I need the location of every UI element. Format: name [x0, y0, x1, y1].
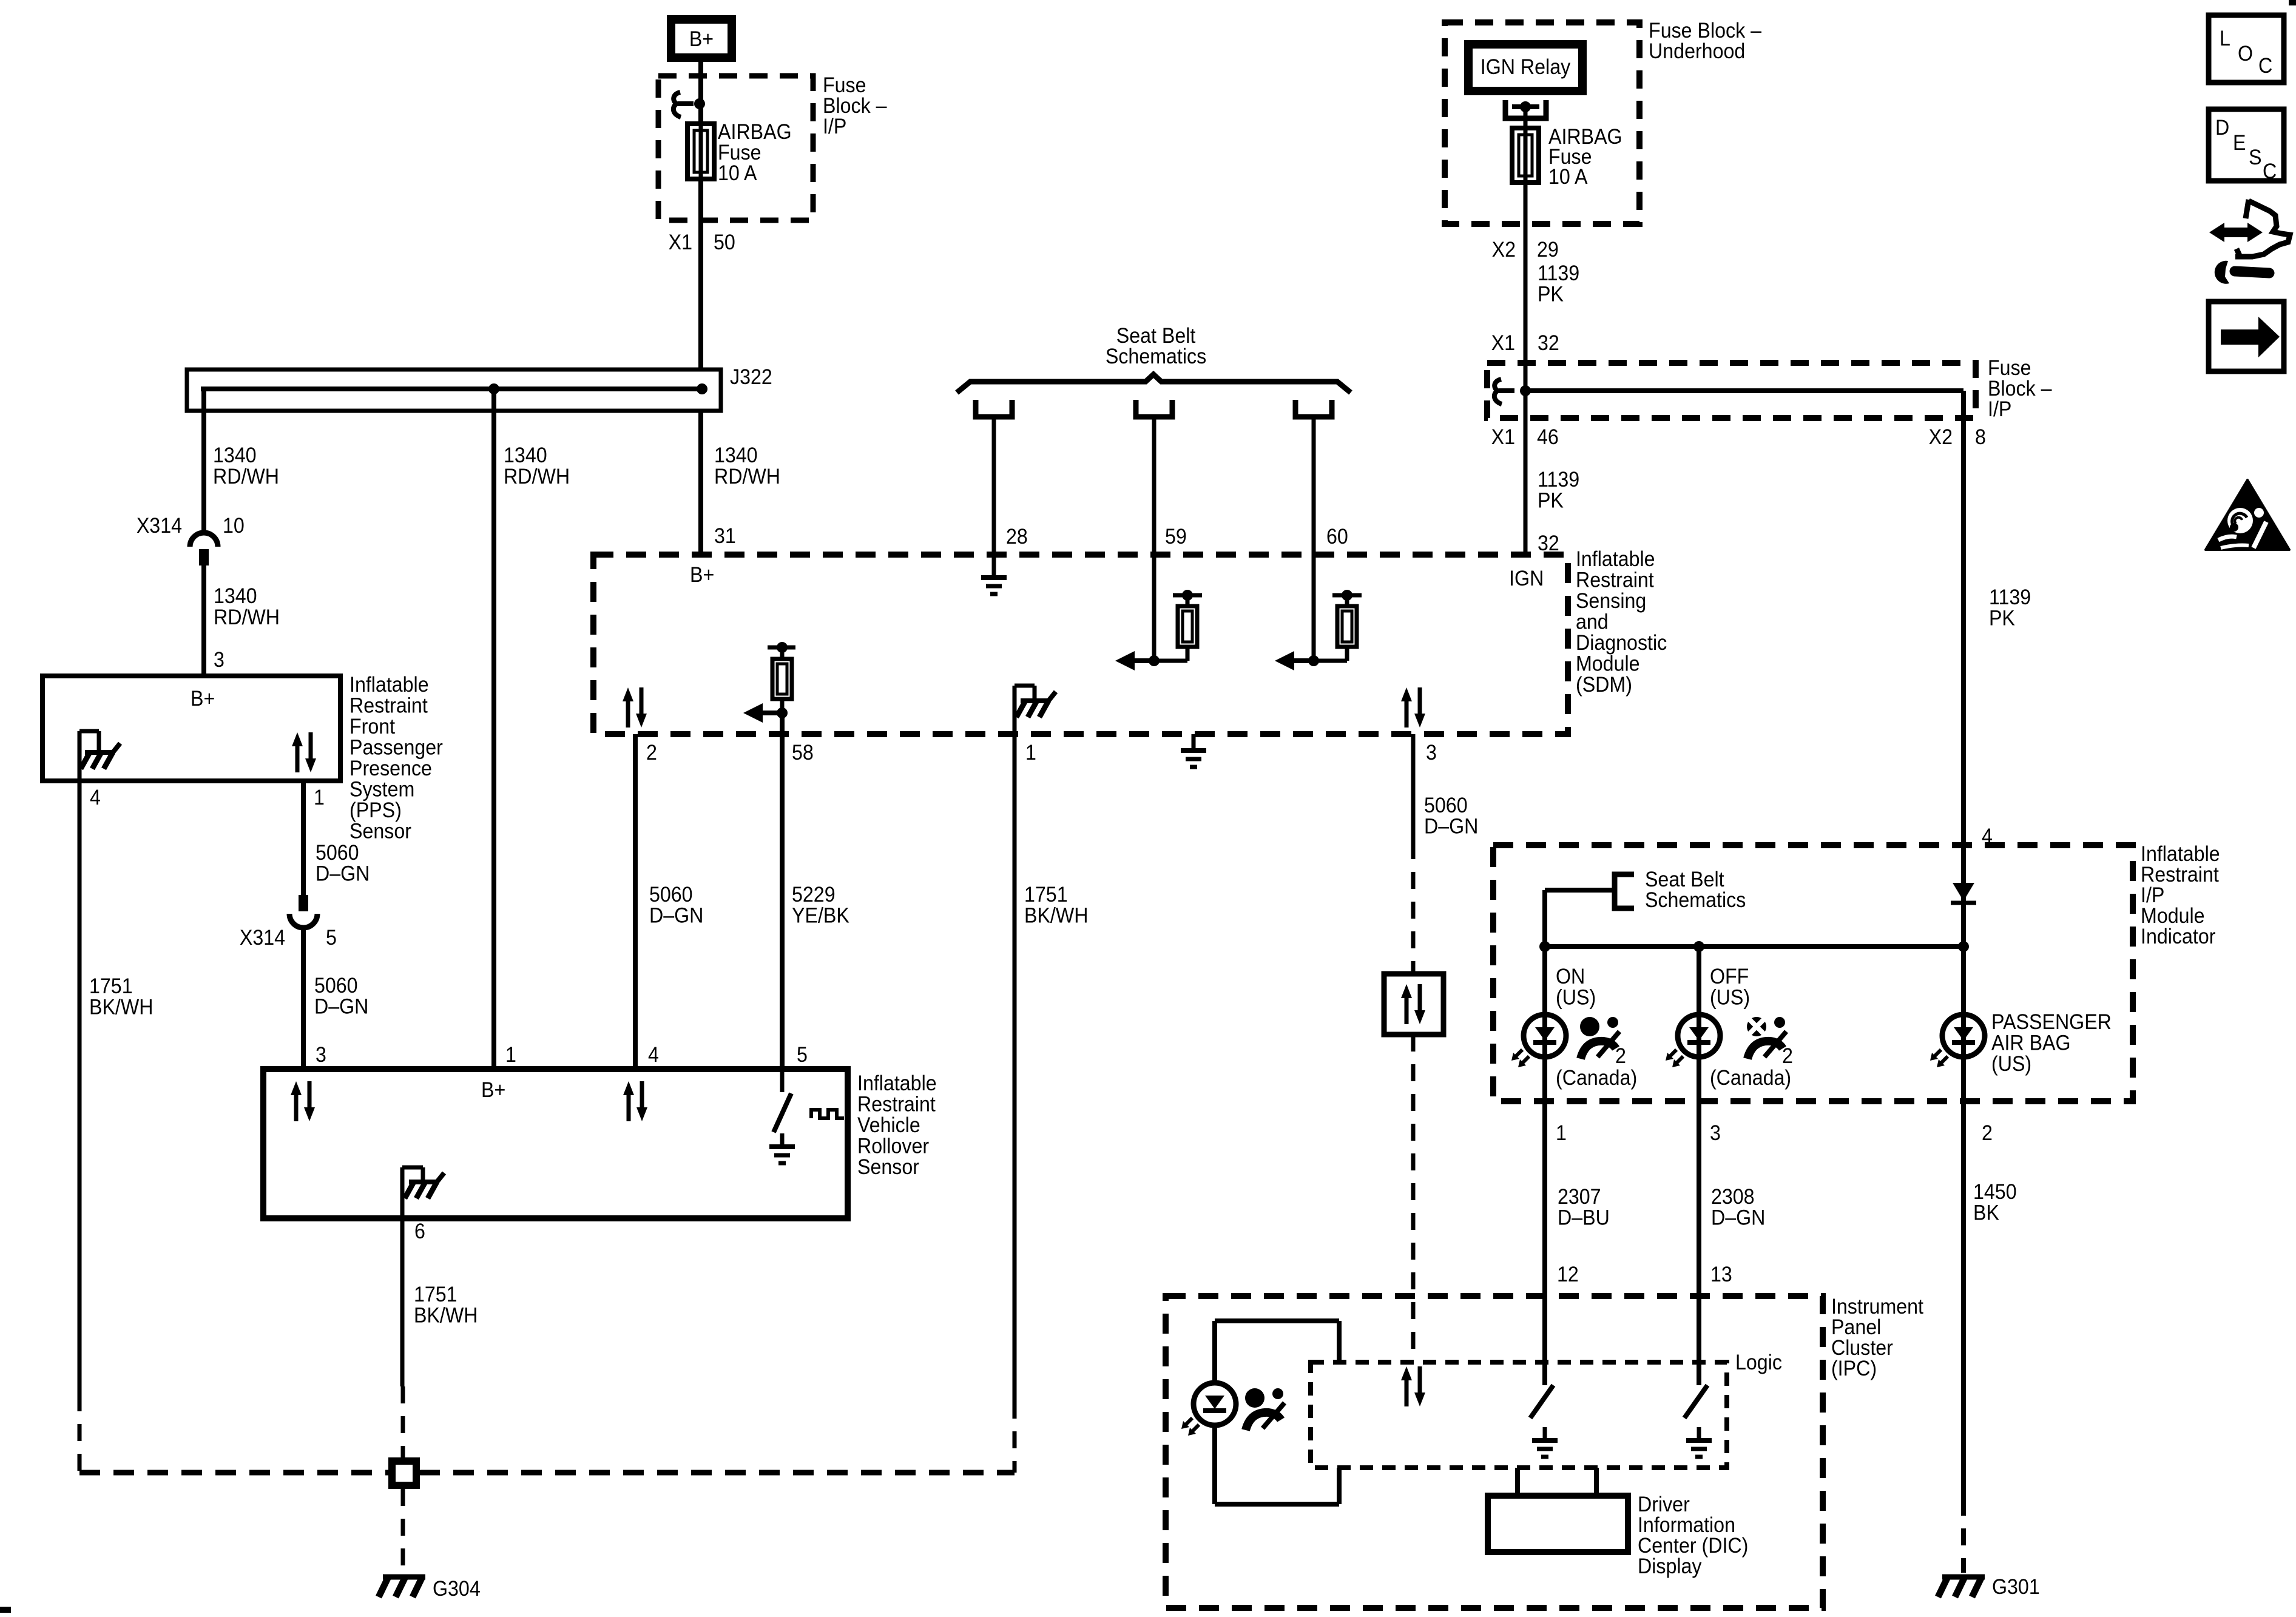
svg-text:(US): (US): [1556, 986, 1596, 1010]
svg-text:IGN Relay: IGN Relay: [1481, 56, 1571, 79]
svg-text:8: 8: [1975, 426, 1986, 450]
IPC pin 12 switch to ground: [1542, 1296, 1547, 1385]
svg-text:3: 3: [1426, 741, 1437, 765]
svg-text:RD/WH: RD/WH: [504, 465, 570, 489]
airbag icon 2 crossed: [1747, 1017, 1766, 1036]
LED indicator OFF: [1678, 1014, 1720, 1057]
svg-text:Seat Belt: Seat Belt: [1645, 868, 1724, 892]
svg-text:B+: B+: [689, 28, 714, 52]
svg-text:2: 2: [1982, 1122, 1993, 1146]
fuse block underhood dashed box: [1445, 22, 1639, 224]
wire SDM 58 to rollover pin 5: [780, 713, 785, 1069]
svg-text:PASSENGER: PASSENGER: [1991, 1011, 2112, 1035]
svg-text:60: 60: [1326, 525, 1348, 549]
svg-text:X1: X1: [669, 231, 692, 255]
svg-text:1: 1: [505, 1044, 516, 1067]
svg-text:3: 3: [214, 649, 225, 672]
wire middle 1340 RD/WH J322 to rollover pin 1: [491, 389, 496, 1069]
label X314 10: [137, 515, 245, 538]
label AIRBAG Fuse 10 A (right): [1548, 126, 1622, 189]
svg-text:D–GN: D–GN: [1711, 1206, 1765, 1230]
chassis ground elbow SDM pin1: [1015, 684, 1035, 688]
bidirectional arrows SDM pin2: [626, 700, 630, 727]
svg-text:X1: X1: [1491, 332, 1515, 356]
svg-text:PK: PK: [1989, 607, 2015, 630]
svg-text:Vehicle: Vehicle: [857, 1114, 920, 1138]
SDM dashed box: [593, 555, 1568, 734]
svg-text:(US): (US): [1710, 986, 1750, 1010]
svg-text:D–GN: D–GN: [316, 862, 370, 886]
pin 58 label: [792, 741, 814, 765]
ground symbol inside PPS: [78, 731, 82, 781]
svg-text:Sensing: Sensing: [1576, 590, 1646, 613]
svg-text:1450: 1450: [1973, 1181, 2017, 1204]
ground G304: [383, 1575, 425, 1580]
label 1751 BK/WH (pin6): [414, 1283, 478, 1328]
label 1139 PK (right): [1989, 586, 2031, 630]
svg-text:I/P: I/P: [2141, 884, 2164, 908]
LED in IPC: [1194, 1383, 1236, 1425]
rollover switch and squarewave: [780, 1069, 785, 1092]
svg-text:10 A: 10 A: [718, 162, 757, 186]
svg-text:G301: G301: [1992, 1576, 2040, 1599]
label 28: [1006, 525, 1028, 549]
label Fuse Block - I/P: [823, 74, 887, 139]
svg-text:J322: J322: [730, 366, 772, 390]
svg-text:28: 28: [1006, 525, 1028, 549]
wire 1450 BK: [1961, 1101, 1966, 1499]
svg-text:13: 13: [1710, 1263, 1732, 1287]
label 32 (SDM pin): [1538, 532, 1559, 556]
wire PPS pin 1 to X314-5: [301, 781, 306, 895]
svg-text:I/P: I/P: [1988, 398, 2011, 422]
page corner marks: [2289, 0, 2296, 5]
svg-text:BK: BK: [1973, 1201, 1999, 1225]
svg-text:3: 3: [1710, 1122, 1721, 1146]
subscript 2: [1615, 1045, 1626, 1068]
label IGN in SDM: [1509, 567, 1544, 591]
ground G301: [1942, 1575, 1985, 1580]
label Inflatable Restraint Front Passenger Presence System (PPS) Sensor: [349, 673, 443, 843]
svg-text:Fuse: Fuse: [718, 141, 761, 165]
svg-text:Block –: Block –: [823, 95, 887, 118]
svg-text:Center (DIC): Center (DIC): [1638, 1534, 1748, 1558]
bidirectional arrows SDM pin3: [1405, 700, 1409, 727]
svg-text:RD/WH: RD/WH: [213, 465, 279, 489]
wire 60: [1312, 417, 1316, 661]
svg-text:D–GN: D–GN: [1424, 815, 1478, 839]
label AIRBAG Fuse 10 A: [718, 121, 792, 186]
svg-text:Restraint: Restraint: [857, 1093, 936, 1116]
label 5060 D-GN: [316, 842, 370, 886]
label Fuse Block - Underhood: [1649, 19, 1761, 64]
wire fuse to J322 pin X1-50: [698, 179, 703, 372]
inflatable restraint I/P module indicator dashed box: [1493, 845, 2133, 1101]
svg-text:PK: PK: [1538, 489, 1564, 513]
svg-text:B+: B+: [191, 687, 215, 711]
svg-text:Information: Information: [1638, 1514, 1735, 1538]
svg-text:X314: X314: [137, 515, 182, 538]
label Logic: [1735, 1351, 1782, 1375]
svg-text:2307: 2307: [1558, 1186, 1601, 1209]
fuse AIRBAG 10A (I/P): [687, 124, 714, 179]
fuse AIRBAG 10A (underhood): [1512, 128, 1539, 183]
svg-text:(IPC): (IPC): [1831, 1357, 1877, 1381]
svg-text:(US): (US): [1991, 1053, 2031, 1076]
wire 1139 PK to SDM 32: [1524, 418, 1528, 555]
svg-text:O: O: [2238, 42, 2253, 66]
bidirectional arrows in PPS: [295, 745, 300, 772]
svg-text:12: 12: [1557, 1263, 1579, 1287]
svg-text:Module: Module: [2141, 905, 2205, 928]
svg-text:1: 1: [1556, 1122, 1567, 1146]
svg-text:Logic: Logic: [1735, 1351, 1782, 1375]
svg-text:Inflatable: Inflatable: [2141, 843, 2220, 866]
pin 4 label indicator: [1982, 825, 1993, 849]
wire bus conductor: [201, 387, 702, 391]
svg-text:I/P: I/P: [823, 115, 846, 139]
seat belt schematics tie-in bracket: [1542, 890, 1547, 947]
junction dot: [694, 98, 705, 109]
svg-text:Sensor: Sensor: [857, 1156, 919, 1180]
svg-text:Instrument: Instrument: [1831, 1295, 1924, 1319]
label Inflatable Restraint I/P Module Indicator: [2141, 843, 2220, 949]
svg-text:Indicator: Indicator: [2141, 925, 2215, 949]
svg-text:1751: 1751: [1024, 883, 1068, 907]
connector X314 pin 5: [299, 895, 308, 911]
svg-text:Fuse Block –: Fuse Block –: [1649, 19, 1761, 43]
junction dot on bus: [488, 383, 499, 394]
diode CR1: [1953, 883, 1974, 901]
resistor network SDM 59: [1149, 655, 1160, 666]
svg-text:(PPS): (PPS): [349, 799, 402, 823]
label (Canada) 1: [1556, 1067, 1637, 1090]
svg-text:29: 29: [1537, 238, 1559, 262]
svg-text:Front: Front: [349, 715, 396, 739]
svg-text:System: System: [349, 778, 414, 802]
pin 1 label SDM: [1025, 741, 1036, 765]
svg-text:31: 31: [714, 525, 736, 549]
power B+ supply box: [671, 19, 732, 58]
svg-text:Underhood: Underhood: [1649, 40, 1745, 64]
instrument panel cluster dashed box: [1166, 1296, 1823, 1608]
wire X314 to PPS pin 3: [201, 565, 206, 676]
svg-text:X1: X1: [1491, 426, 1515, 450]
wire rollover pin 6 to splice: [400, 1218, 405, 1386]
brace: [957, 374, 1351, 393]
label ON (US): [1556, 965, 1596, 1010]
wire LED OFF column: [1697, 947, 1701, 1101]
label 1751 BK/WH (far left): [89, 975, 153, 1019]
label G304: [433, 1578, 481, 1601]
svg-text:Block –: Block –: [1988, 377, 2052, 401]
wire SDM pin3 5060 D-GN: [1411, 734, 1416, 842]
label Seat Belt Schematics (right): [1645, 868, 1746, 913]
svg-text:Seat Belt: Seat Belt: [1116, 325, 1196, 348]
label 1340 RD/WH (right): [714, 444, 780, 489]
svg-text:G304: G304: [433, 1578, 481, 1601]
svg-text:BK/WH: BK/WH: [1024, 904, 1088, 928]
svg-text:Rollover: Rollover: [857, 1135, 929, 1158]
wire PASSENGER AIR BAG column: [1961, 947, 1966, 1101]
wire 59: [1152, 417, 1156, 661]
svg-text:10 A: 10 A: [1548, 166, 1588, 189]
svg-text:5229: 5229: [792, 883, 836, 907]
connector X314 pin 10: [190, 533, 218, 547]
pin 3 label SDM: [1426, 741, 1437, 765]
svg-text:ON: ON: [1556, 965, 1585, 989]
label X1 32: [1491, 332, 1559, 356]
pin 1 label: [314, 786, 325, 810]
resistor network SDM 58: [768, 646, 795, 650]
chassis ground elbow in rollover pin 6: [400, 1167, 405, 1218]
wire 28: [992, 417, 996, 555]
svg-text:2: 2: [646, 741, 657, 765]
svg-text:1340: 1340: [504, 444, 547, 468]
fuse clip J1: [674, 92, 681, 117]
svg-text:1340: 1340: [213, 444, 257, 468]
svg-text:OFF: OFF: [1710, 965, 1749, 989]
airbag icon 1: [1580, 1017, 1599, 1036]
fuse block I/P dashed box (right): [1487, 363, 1976, 418]
svg-text:BK/WH: BK/WH: [89, 996, 153, 1019]
label 31: [714, 525, 736, 549]
svg-text:32: 32: [1538, 532, 1559, 556]
svg-text:1: 1: [1025, 741, 1036, 765]
wire 2308 D-GN: [1697, 1101, 1701, 1362]
PPS sensor box: [42, 676, 340, 781]
label PASSENGER AIR BAG (US): [1991, 1011, 2112, 1076]
wire 1139 PK right side down: [1961, 418, 1966, 845]
svg-text:50: 50: [714, 231, 735, 255]
svg-text:C: C: [2258, 55, 2272, 78]
svg-text:1751: 1751: [414, 1283, 458, 1307]
label 1139 PK (upper): [1538, 262, 1579, 306]
label 1340 RD/WH (middle): [504, 444, 570, 489]
bidirectional arrows rollover (pin 4): [627, 1094, 631, 1121]
label Inflatable Restraint Sensing and Diagnostic Module (SDM): [1576, 548, 1667, 697]
svg-text:46: 46: [1537, 426, 1559, 450]
label (Canada) 2: [1710, 1067, 1791, 1090]
label 1139 PK (mid): [1538, 468, 1579, 513]
wire into diode: [1961, 845, 1966, 947]
earth ground SDM 28: [992, 555, 996, 578]
label 1751 BK/WH (SDM 1): [1024, 883, 1088, 928]
svg-text:1751: 1751: [89, 975, 133, 999]
svg-text:58: 58: [792, 741, 814, 765]
label IGN Relay: [1481, 56, 1571, 79]
label Instrument Panel Cluster (IPC): [1831, 1295, 1924, 1381]
svg-text:Panel: Panel: [1831, 1316, 1881, 1340]
LED wire loop: [1212, 1321, 1217, 1383]
IPC pin 13 switch to ground: [1697, 1296, 1701, 1385]
relay contact bracket: [1505, 100, 1546, 118]
svg-text:4: 4: [648, 1044, 659, 1067]
svg-text:Module: Module: [1576, 652, 1640, 676]
wire B+ to fuse F1: [698, 58, 703, 126]
splice box on ground bus: [392, 1461, 416, 1485]
svg-text:AIR BAG: AIR BAG: [1991, 1031, 2071, 1055]
pin 2 label: [646, 741, 657, 765]
wire 1340 RD/WH left branch to X314: [201, 411, 206, 532]
svg-text:(Canada): (Canada): [1710, 1067, 1791, 1090]
svg-text:4: 4: [90, 786, 101, 810]
wire I/P block bus to X2-8: [1525, 388, 1963, 393]
seat belt schematics label (top): [1106, 325, 1206, 369]
pin 6 label: [414, 1220, 425, 1244]
subscript 2: [1782, 1045, 1793, 1068]
svg-text:Inflatable: Inflatable: [857, 1072, 937, 1096]
svg-text:32: 32: [1538, 332, 1559, 356]
label B+: [689, 28, 714, 52]
svg-text:1340: 1340: [714, 444, 758, 468]
svg-text:E: E: [2233, 132, 2246, 155]
svg-text:Sensor: Sensor: [349, 820, 411, 843]
svg-text:Restraint: Restraint: [1576, 569, 1654, 592]
svg-text:RD/WH: RD/WH: [714, 465, 780, 489]
svg-text:Driver: Driver: [1638, 1493, 1690, 1517]
svg-text:YE/BK: YE/BK: [792, 904, 849, 928]
LOC box icon: [2209, 15, 2284, 83]
wire fuse to X2-29: [1524, 183, 1528, 363]
svg-text:Restraint: Restraint: [349, 694, 428, 718]
seat belt connector 59: [1136, 400, 1172, 417]
label OFF (US): [1710, 965, 1750, 1010]
fuse block I/P dashed box (top left): [658, 76, 813, 220]
svg-text:BK/WH: BK/WH: [414, 1304, 478, 1328]
DESC box icon: [2209, 109, 2284, 181]
wire 2307 D-BU: [1542, 1101, 1547, 1362]
wire LED ON column: [1542, 947, 1547, 1101]
wire SDM pin2 to rollover pin 4: [633, 734, 638, 1069]
splice pack J322 bus: [187, 370, 721, 411]
svg-text:(SDM): (SDM): [1576, 673, 1632, 697]
dashed ground bus G304 path: [79, 1470, 1015, 1476]
svg-text:5060: 5060: [649, 883, 693, 907]
svg-text:1139: 1139: [1538, 262, 1579, 286]
svg-text:2: 2: [1615, 1045, 1626, 1068]
svg-text:RD/WH: RD/WH: [214, 606, 280, 630]
svg-text:1340: 1340: [214, 585, 257, 609]
label 59: [1165, 525, 1187, 549]
label 13: [1710, 1263, 1732, 1287]
label G301: [1992, 1576, 2040, 1599]
svg-text:PK: PK: [1538, 283, 1564, 306]
svg-text:Schematics: Schematics: [1106, 345, 1206, 369]
airbag icon IPC: [1245, 1388, 1264, 1408]
label 5060 D-GN (lower): [314, 974, 368, 1019]
svg-text:2308: 2308: [1711, 1186, 1755, 1209]
svg-text:6: 6: [414, 1220, 425, 1244]
earth ground below SDM: [1192, 734, 1196, 751]
svg-text:X2: X2: [1492, 238, 1516, 262]
dashed wire to IPC logic: [1411, 1035, 1416, 1357]
label 1340 RD/WH (left): [213, 444, 279, 489]
svg-text:IGN: IGN: [1509, 567, 1544, 591]
svg-text:3: 3: [316, 1044, 326, 1067]
svg-text:Cluster: Cluster: [1831, 1337, 1893, 1360]
pin labels 1 4 5 rollover: [505, 1044, 808, 1067]
bidirectional arrows in logic: [1405, 1379, 1409, 1406]
pin labels 1 3 2 indicator: [1556, 1122, 1993, 1146]
label Driver Information Center (DIC) Display: [1638, 1493, 1748, 1579]
svg-text:(Canada): (Canada): [1556, 1067, 1637, 1090]
svg-text:1: 1: [314, 786, 325, 810]
svg-text:B+: B+: [690, 564, 714, 587]
wire contact to fuse: [1524, 107, 1528, 130]
wire 1751 BK/WH from PPS pin 4: [78, 781, 82, 1394]
svg-text:D–BU: D–BU: [1558, 1206, 1610, 1230]
svg-text:5: 5: [326, 927, 337, 950]
pin 3 label PPS: [214, 649, 225, 672]
hand with wrench icon: [2222, 228, 2250, 237]
svg-text:5060: 5060: [316, 842, 359, 865]
right arrow box icon: [2209, 302, 2284, 371]
svg-text:2: 2: [1782, 1045, 1793, 1068]
svg-text:Inflatable: Inflatable: [1576, 548, 1655, 572]
relay IGN Relay box: [1468, 44, 1582, 91]
svg-text:C: C: [2263, 160, 2277, 184]
svg-text:5: 5: [797, 1044, 808, 1067]
svg-text:S: S: [2249, 146, 2261, 170]
pin 3 label rollover: [316, 1044, 326, 1067]
earth ground in rollover: [780, 1133, 785, 1147]
svg-text:5060: 5060: [314, 974, 358, 998]
label Inflatable Restraint Vehicle Rollover Sensor: [857, 1072, 937, 1180]
resistor network SDM 60: [1308, 655, 1319, 666]
svg-text:Display: Display: [1638, 1555, 1702, 1579]
seat belt connector 28: [976, 400, 1012, 417]
pin 4 label: [90, 786, 101, 810]
svg-text:10: 10: [223, 515, 245, 538]
label J322: [730, 366, 772, 390]
dashed wire splice to G304: [401, 1489, 405, 1573]
logic dashed box: [1311, 1362, 1727, 1468]
indicator bus wire: [1545, 944, 1963, 949]
junction dot on bus (right): [697, 383, 707, 394]
svg-text:D–GN: D–GN: [649, 904, 703, 928]
dashed wire to ground path: [78, 1394, 82, 1473]
label B+ inside SDM: [690, 564, 714, 587]
svg-text:Diagnostic: Diagnostic: [1576, 632, 1667, 655]
svg-text:1139: 1139: [1989, 586, 2031, 610]
bidirectional arrows rollover (left): [294, 1094, 299, 1121]
label X1 46: [1491, 426, 1559, 450]
label B+ in rollover: [481, 1079, 505, 1102]
svg-text:AIRBAG: AIRBAG: [718, 121, 792, 144]
LED indicator ON: [1524, 1014, 1566, 1057]
label B+ in PPS: [191, 687, 215, 711]
label 1340 RD/WH (below X314): [214, 585, 280, 630]
wire 31 into SDM: [698, 411, 703, 555]
seat belt connector 60: [1295, 400, 1332, 417]
svg-text:D: D: [2215, 116, 2229, 140]
DIC display box: [1515, 1468, 1520, 1496]
label 5060 D-GN (SDM 2): [649, 883, 703, 928]
label Fuse Block - I/P (right): [1988, 357, 2052, 422]
svg-text:X2: X2: [1929, 426, 1953, 450]
svg-text:and: and: [1576, 610, 1609, 634]
wire X314-5 to rollover pin 3: [301, 930, 306, 1069]
label 12: [1557, 1263, 1579, 1287]
wire through I/P block: [1524, 363, 1528, 418]
svg-text:59: 59: [1165, 525, 1187, 549]
warning triangle airbag icon: [2206, 480, 2289, 550]
svg-text:Inflatable: Inflatable: [349, 673, 429, 697]
label 5229 YE/BK: [792, 883, 849, 928]
rollover sensor box: [263, 1069, 848, 1218]
svg-text:Fuse: Fuse: [1988, 357, 2031, 380]
